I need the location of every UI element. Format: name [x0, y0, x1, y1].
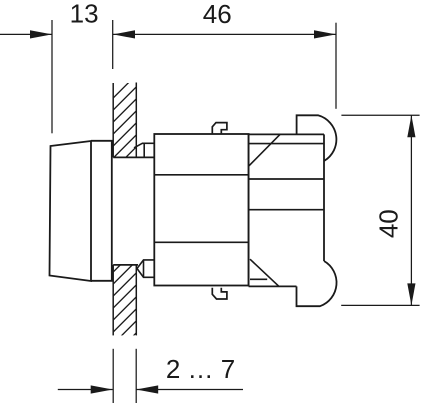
contact block line 2 — [249, 178, 324, 180]
panel hole top edge / neck top — [113, 156, 154, 158]
extension line panel left x=113.2 (below panel break) — [112, 349, 114, 403]
extension line left x=52 — [51, 20, 53, 133]
holder internal line upper — [154, 174, 248, 176]
dimension line 46 (top-right segment) — [113, 33, 336, 35]
extension line mid x=112.7 — [112, 20, 114, 69]
arrow tip down at y=305.4 — [407, 283, 415, 305]
svg-text:2 … 7: 2 … 7 — [166, 354, 235, 384]
arrow tip left at x=136.2 — [136, 385, 158, 393]
button cap outline — [50, 141, 92, 281]
arrow tip left at x=113 — [113, 30, 135, 38]
contact block bottom short line — [250, 278, 267, 280]
button bezel bottom edge — [91, 280, 113, 282]
button bezel top edge — [91, 140, 113, 142]
dimension 40 reference line top — [341, 114, 419, 116]
panel wall lower section (hatched) — [107, 243, 142, 362]
dimension line 40 (vertical) — [410, 115, 412, 305]
contact block body — [249, 134, 324, 286]
arrow tip right at x=52 — [30, 30, 52, 38]
button back edge — [111, 141, 113, 281]
holder internal line lower — [154, 241, 248, 243]
arrow tip right at x=336 — [314, 30, 336, 38]
svg-text:13: 13 — [70, 0, 99, 29]
contact block bottom-left diagonal — [250, 259, 279, 286]
panel wall upper section (hatched) — [107, 69, 142, 188]
rear dome top ear — [297, 115, 337, 161]
dimension 40 reference line bottom — [341, 304, 419, 306]
holder top latch hook — [212, 123, 227, 134]
holder bottom latch hook — [212, 288, 227, 299]
arrow tip right at x=112.7 — [91, 385, 113, 393]
panel hole bottom edge / neck bottom — [113, 264, 138, 266]
contact block line 3 — [249, 209, 324, 211]
svg-text:46: 46 — [203, 0, 232, 29]
dimension line 13 (top-left segment) — [0, 33, 52, 35]
dimension line 2...7 left segment — [58, 389, 113, 391]
contact block top-left diagonal — [249, 134, 280, 166]
extension line right x=336 — [335, 23, 337, 109]
svg-text:40: 40 — [373, 209, 403, 238]
holder adapter body — [154, 134, 248, 286]
arrow tip up at y=115.3 — [407, 115, 415, 137]
contact block line 1 — [249, 143, 324, 145]
rear dome bottom ear — [297, 261, 337, 306]
front clamp wedge (bottom, at panel) — [137, 260, 154, 277]
front anti-rotation lug (top, at panel) — [134, 143, 154, 157]
extension line panel right x=136.2 (below panel break) — [135, 349, 137, 403]
dimension line 2...7 right segment — [136, 389, 243, 391]
